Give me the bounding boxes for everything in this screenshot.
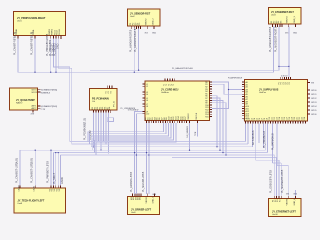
wire U7 drop3: [252, 123, 254, 146]
U7 bottom pin 21: [295, 121, 297, 123]
U7 right pin 7: [308, 113, 311, 115]
junction: [146, 152, 147, 153]
U2 pin 5: [140, 26, 142, 29]
svg-text:GYB_BKB.W: GYB_BKB.W: [128, 109, 139, 111]
wire U2 pin4 drop: [138, 29, 140, 71]
U6 bottom pin 12: [171, 121, 173, 123]
wire U8 pin3 drop: [50, 150, 52, 185]
wire U8 pin5 drop: [55, 153, 57, 186]
svg-text:GND: GND: [293, 33, 298, 35]
U6 bottom pin 10: [167, 121, 169, 123]
U5 bottom pin 2: [95, 110, 97, 113]
U4 pin 1: [38, 89, 41, 91]
svg-text:AC 3.3V-BUS: AC 3.3V-BUS: [252, 130, 255, 145]
hier sheet U7 supply-bus: [245, 80, 308, 122]
U5 top pin 1: [106, 86, 108, 89]
U7 bottom pin 15: [280, 121, 282, 123]
wire U7 drop10: [276, 123, 278, 165]
wire gap bundle 1: [212, 96, 217, 147]
U7 left pin 2: [242, 83, 244, 85]
wire U6R2 to gap: [212, 84, 242, 94]
U3 pin 5: [281, 24, 283, 27]
svg-text:SIG3X: SIG3X: [59, 28, 61, 35]
svg-text:PL_AMKNB-RGBT.B: PL_AMKNB-RGBT.B: [130, 29, 133, 52]
wire U7 drop9: [272, 123, 274, 163]
U6 bottom pin 16: [181, 121, 183, 123]
U5 bottom pin 4: [100, 110, 102, 113]
U3 pin 1: [272, 24, 274, 27]
wire U6 drop4: [93, 123, 171, 150]
svg-text:SWDIO: SWDIO: [188, 113, 190, 120]
U9 pin 2: [134, 193, 136, 196]
wire gap bundle 2: [212, 98, 220, 150]
junction: [93, 146, 94, 147]
U8 pin 4: [52, 185, 54, 188]
junction: [35, 150, 36, 151]
junction: [108, 152, 109, 153]
U6 right pin 12: [210, 106, 212, 108]
svg-text:L2: L2: [146, 86, 148, 88]
hier sheet U9 bottom-middle: [128, 197, 160, 215]
hier sheet U10 bottom-right: [269, 199, 302, 217]
wire net CAN-A trunk: [18, 26, 274, 72]
U7 left pin 10: [242, 103, 244, 105]
U7 left pin 9: [242, 100, 244, 102]
svg-text:GPIO0: GPIO0: [311, 90, 317, 92]
U7 bottom pin 23: [300, 121, 302, 123]
U5 bottom pin 5: [103, 110, 105, 113]
U8 pin 7: [60, 185, 62, 188]
svg-text:GND_A: GND_A: [293, 198, 296, 206]
wire U5 pinB2 drop: [95, 113, 97, 144]
U6 right pin 15: [210, 113, 212, 115]
wire U8 pin7 drop: [60, 155, 62, 185]
wire trunk L7: [172, 157, 277, 159]
U6 right pin 16: [210, 116, 212, 118]
U9 pin 5: [140, 193, 142, 196]
U9 pin 7: [153, 193, 155, 196]
U7 left pin 1: [242, 81, 244, 83]
svg-text:GPIO4: GPIO4: [311, 106, 317, 108]
U6 right pin 11: [210, 104, 212, 106]
wire U5 pinB3 drop: [98, 113, 100, 142]
wire U10 pin4 drop: [280, 163, 282, 196]
U6 right pin 4: [210, 88, 212, 90]
U5 top pin 2: [109, 86, 111, 89]
U8 pin 2: [34, 185, 36, 188]
wire net CAN-B trunk: [90, 26, 279, 70]
U6 left pin 10: [143, 113, 145, 115]
hier sheet U1 top-left: [14, 12, 66, 36]
svg-text:UnitPwr: UnitPwr: [259, 91, 266, 94]
U7 bottom pin 1: [245, 121, 247, 123]
wire link H1 to U3 pin6: [279, 65, 289, 67]
U6 left pin 5: [143, 97, 145, 99]
U6 right pin 7: [210, 95, 212, 97]
U1 pin 5: [55, 36, 57, 39]
U5 bottom pin 7: [108, 110, 110, 113]
U5 bottom pin 6: [105, 110, 107, 113]
U3 pin 4: [279, 24, 281, 27]
svg-text:P6: P6: [289, 82, 291, 84]
U7 bottom pin 4: [252, 121, 254, 123]
wire trunk L3: [91, 146, 252, 148]
U6 left pin 7: [143, 103, 145, 105]
U6 bottom pin 9: [164, 121, 166, 123]
U7 left pin 11: [242, 105, 244, 107]
svg-text:3V3: 3V3: [145, 33, 148, 35]
U7 right pin 5: [308, 105, 311, 107]
wire U1 pin4 route: [53, 38, 69, 141]
U6 bottom pin 6: [157, 121, 159, 123]
svg-text:PL_LAMeKtKTDKYLA-B: PL_LAMeKtKTDKYLA-B: [172, 67, 193, 70]
U7 left pin 5: [242, 91, 244, 93]
U6 right pin 5: [210, 90, 212, 92]
U6 top pin 2: [166, 79, 168, 81]
svg-text:VBUS2: VBUS2: [146, 18, 148, 26]
U7 left pin 16: [242, 117, 244, 119]
svg-text:VBUSA: VBUSA: [286, 198, 289, 206]
junction: [138, 70, 139, 71]
U2 pin 1: [131, 26, 133, 29]
junction: [228, 89, 229, 90]
U6 top pin 5: [174, 79, 176, 81]
junction: [55, 152, 56, 153]
wire U9 pinC drop from U6: [146, 123, 148, 194]
U7 right pin 4: [308, 101, 311, 103]
svg-text:PL_BATMON.B: PL_BATMON.B: [271, 133, 274, 150]
junction: [134, 72, 135, 73]
wire U5 pinB6 drop: [105, 113, 107, 144]
wire gap bundle 4: [212, 103, 226, 155]
svg-text:L6: L6: [146, 100, 148, 102]
U7 bottom pin 25: [305, 121, 307, 123]
svg-text:PS_IO: PS_IO: [114, 100, 116, 107]
U6 bottom pin 17: [183, 121, 185, 123]
junction: [50, 150, 51, 151]
svg-text:T5: T5: [173, 84, 175, 86]
wire U1 pin2 drop: [34, 38, 36, 72]
svg-text:SIG2: SIG2: [57, 29, 59, 35]
wire U6 swclk drop: [197, 123, 199, 137]
svg-text:PL_MGBEGBT-LBT.B: PL_MGBEGBT-LBT.B: [281, 169, 284, 193]
wire gap link U7: [212, 90, 229, 109]
svg-text:GND_3: GND_3: [294, 15, 296, 23]
U7 left pin 15: [242, 115, 244, 117]
wire U7 drop1: [245, 123, 247, 141]
svg-text:4TW: 4TW: [31, 114, 35, 116]
svg-text:C.TW: C.TW: [41, 109, 46, 111]
svg-text:PL_GBEKGBT-RGBT.B: PL_GBEKGBT-RGBT.B: [269, 26, 272, 52]
U6 left pin 6: [143, 99, 145, 101]
U6 right pin 6: [210, 93, 212, 95]
wire U3 pin6 drop to U7: [288, 26, 290, 77]
svg-text:PL_AMKNB-LBT.B: PL_AMKNB-LBT.B: [130, 172, 133, 192]
U2 pin 2: [133, 26, 135, 29]
junction: [98, 141, 99, 142]
U7 bottom pin 20: [292, 121, 294, 123]
wire U6 drop2: [90, 123, 166, 144]
wire U5 pinB7 drop: [108, 113, 110, 153]
svg-text:UnitMain: UnitMain: [161, 91, 169, 94]
svg-text:PL_SIGLT: PL_SIGLT: [53, 172, 56, 184]
U6 bottom pin 13: [174, 121, 176, 123]
U10 pin 3: [278, 195, 280, 198]
U7 bottom pin 24: [302, 121, 304, 123]
svg-text:CANL: CANL: [33, 185, 36, 191]
svg-text:PL_AMKNBPT-BGT.B: PL_AMKNBPT-BGT.B: [134, 28, 137, 52]
wire U8 pin6 drop: [57, 153, 59, 186]
svg-text:L8: L8: [146, 106, 148, 108]
U3 pin 6: [287, 24, 289, 27]
U2 pin 3: [136, 26, 138, 29]
U7 left pin 6: [242, 93, 244, 95]
U2 pin 6: [146, 26, 148, 29]
svg-text:PL_PCMBKNB[7..0]: PL_PCMBKNB[7..0]: [84, 118, 87, 140]
junction: [95, 143, 96, 144]
U7 top pin 1: [279, 77, 281, 79]
junction: [278, 66, 279, 67]
U6 right pin 3: [210, 86, 212, 88]
wire U10 pin6 drop: [295, 190, 297, 196]
U6 left pin 3: [143, 91, 145, 93]
U6 right pin 1: [210, 81, 212, 83]
U7 bottom pin 11: [270, 121, 272, 123]
U7 right pin 3: [308, 97, 311, 99]
svg-text:GPIO6: GPIO6: [311, 114, 317, 116]
junction: [222, 152, 223, 153]
wire U10 pin1 drop: [273, 155, 275, 196]
U2 pin 7: [153, 26, 155, 29]
hier sheet U2 top-middle: [128, 9, 161, 26]
U6 left pin 2: [143, 85, 145, 87]
U7 top pin 4: [286, 77, 288, 79]
junction: [219, 150, 220, 151]
svg-text:TCK: TCK: [195, 131, 197, 136]
U1 pin 2: [34, 36, 36, 39]
junction: [58, 152, 59, 153]
svg-text:«[JUMANDKT[BV.B]: «[JUMANDKT[BV.B]: [41, 105, 58, 108]
U7 bottom pin 22: [297, 121, 299, 123]
U1 pin 4: [52, 36, 54, 39]
U8 pin 6: [57, 185, 59, 188]
U5 bottom pin 3: [98, 110, 100, 113]
wire trunk L1: [70, 141, 246, 143]
U6 top pin 3: [169, 79, 171, 81]
junction: [34, 72, 35, 73]
wire U5 pinB4 drop: [100, 113, 102, 151]
U6 right pin 9: [210, 99, 212, 101]
wire U7 drop5: [258, 123, 260, 143]
wire U6 drop1: [88, 123, 164, 142]
U7 bottom pin 8: [262, 121, 264, 123]
wire U8 pin4 drop: [52, 153, 54, 186]
U7 bottom pin 13: [275, 121, 277, 123]
wire U5 pinB1 drop: [93, 113, 95, 147]
wire trunk L6: [61, 154, 275, 156]
U6 top pin 1: [164, 79, 166, 81]
wire U7 drop4: [255, 123, 257, 160]
svg-text:3V3: 3V3: [285, 33, 288, 35]
svg-text:R15: R15: [205, 116, 208, 118]
U7 bottom pin 6: [257, 121, 259, 123]
junction: [288, 66, 289, 67]
junction: [55, 72, 56, 73]
U6 bottom pin 7: [160, 121, 162, 123]
U4 pin 4: [38, 107, 41, 109]
svg-text:PL_CANBGT-LBT[B.B]: PL_CANBGT-LBT[B.B]: [31, 158, 34, 183]
wire trunk L5: [53, 152, 267, 154]
svg-text:L10: L10: [146, 114, 149, 116]
wire trunk L4: [20, 149, 266, 151]
svg-text:WLRX: WLRX: [32, 92, 38, 94]
U4 pin 3: [38, 105, 41, 107]
wire U6 drop3: [91, 123, 168, 147]
U6 left pin 4: [143, 93, 145, 95]
svg-text:PL_PWRBUS.B: PL_PWRBUS.B: [263, 131, 266, 148]
U1 pin 3: [50, 36, 52, 39]
U4 pin 2: [38, 91, 41, 93]
U7 left pin 13: [242, 110, 244, 112]
U3 pin 3: [277, 24, 279, 27]
U6 right pin 10: [210, 102, 212, 104]
U7 left pin 4: [242, 89, 244, 91]
U7 bottom pin 3: [250, 121, 252, 123]
wire U6 drop6: [96, 123, 176, 155]
U6 bottom pin 3: [150, 121, 152, 123]
U7 left pin 3: [242, 86, 244, 88]
U7 left pin 12: [242, 108, 244, 110]
U6 left pin 9: [143, 111, 145, 113]
U7 top pin 3: [283, 77, 285, 79]
svg-text:K3: K3: [110, 91, 112, 93]
wire U9 pinB route from U6: [136, 114, 142, 194]
svg-text:GPIO5: GPIO5: [311, 110, 317, 112]
U6 bottom pin 19: [189, 121, 191, 123]
U8 pin 5: [55, 185, 57, 188]
hier sheet U8 bottom-left: [14, 188, 66, 213]
svg-text:RADIO: RADIO: [16, 101, 23, 104]
U7 top pin 6: [290, 77, 292, 79]
svg-text:GND_2: GND_2: [152, 18, 154, 26]
wire U6 swdio drop: [189, 123, 191, 150]
hier sheet U3 top-right: [269, 8, 302, 24]
wire U10 pin3 drop: [278, 160, 280, 196]
wire trunk L2: [72, 143, 248, 145]
junction: [136, 154, 137, 155]
U1 pin 7: [60, 36, 62, 39]
U7 right pin 6: [308, 109, 311, 111]
svg-text:ANT2: ANT2: [32, 107, 37, 110]
wire U1 pin6 route: [58, 38, 71, 144]
svg-text:GPIO1: GPIO1: [311, 94, 317, 96]
U7 bottom pin 14: [277, 121, 279, 123]
U6 top pin 4: [171, 79, 173, 81]
wire U5 pinB5 drop: [103, 113, 105, 142]
U9 pin 1: [132, 193, 134, 196]
svg-text:PL_PWRBGT-LBT.B: PL_PWRBGT-LBT.B: [46, 161, 49, 183]
svg-text:VBUS3: VBUS3: [287, 16, 289, 24]
U6 bottom pin 2: [148, 121, 150, 123]
wire U7 drop7: [265, 123, 267, 150]
wire U9 pinA route from U6: [135, 112, 143, 194]
U6 left pin 8: [143, 105, 145, 107]
U7 left pin 14: [242, 112, 244, 114]
U2 pin 4: [138, 26, 140, 29]
U7 right pin 1: [308, 89, 311, 91]
junction: [189, 150, 190, 151]
wire U8 pin1 drop: [19, 150, 21, 185]
wire U10 pin2 drop: [276, 158, 278, 196]
small net-tie loop below U5: [107, 118, 113, 122]
wire U7 drop6: [263, 123, 265, 148]
U9 pin 3: [136, 193, 138, 196]
svg-text:PL_MGBEGBT-RGBT.B: PL_MGBEGBT-RGBT.B: [274, 26, 277, 52]
U7 left pin 8: [242, 98, 244, 100]
svg-text:VBUS9: VBUS9: [146, 196, 148, 204]
wire U6 drop5: [94, 123, 173, 153]
svg-text:GND8: GND8: [61, 177, 64, 184]
svg-text:PWR1: PWR1: [49, 28, 51, 35]
svg-text:C24: C24: [304, 117, 306, 120]
U7 bottom pin 17: [285, 121, 287, 123]
wire U2 pin2 drop: [133, 29, 135, 73]
svg-text:CANH: CANH: [17, 185, 20, 191]
U9 pin 4: [138, 193, 140, 196]
U6 left pin 1: [143, 83, 145, 85]
junction: [105, 143, 106, 144]
U6 right pin 2: [210, 83, 212, 85]
U7 right pin 8: [308, 82, 311, 84]
junction: [100, 150, 101, 151]
U3 pin 2: [274, 24, 276, 27]
svg-text:3V3: 3V3: [286, 194, 289, 196]
svg-text:«[JUMANDKT[BV.A]: «[JUMANDKT[BV.A]: [41, 89, 58, 92]
U7 left pin 7: [242, 96, 244, 98]
svg-text:U6_SWDIO: U6_SWDIO: [187, 126, 189, 138]
U6 bottom pin 4: [153, 121, 155, 123]
U10 pin 5: [287, 195, 289, 198]
U7 bottom pin 12: [272, 121, 274, 123]
U7 bottom pin 9: [265, 121, 267, 123]
U5 top pin 3: [111, 86, 113, 89]
U9 pin 6: [147, 193, 149, 196]
U6 bottom pin 1: [146, 121, 148, 123]
wire U1 pin3 drop: [50, 38, 52, 72]
svg-text:GND: GND: [152, 33, 157, 35]
U7 top pin 2: [281, 77, 283, 79]
U6 right pin 14: [210, 111, 212, 113]
wire trunk L10: [277, 165, 288, 167]
svg-text:Unit10: Unit10: [272, 213, 279, 216]
svg-text:L4: L4: [146, 94, 148, 96]
U6 bottom pin 20: [197, 121, 199, 123]
svg-text:GND_9: GND_9: [153, 196, 155, 204]
svg-text:NUMBER.A: NUMBER.A: [41, 92, 51, 95]
U7 top pin 5: [288, 77, 290, 79]
U8 pin 1: [19, 185, 21, 188]
U7 bottom pin 18: [287, 121, 289, 123]
wire U6R1 to gap: [212, 82, 242, 90]
U7 bottom pin 10: [267, 121, 269, 123]
U7 bottom pin 19: [290, 121, 292, 123]
wire U7 drop2: [247, 123, 249, 144]
svg-text:GND: GND: [57, 43, 60, 49]
hier sheet U6 core-mcu: [145, 81, 210, 121]
hier sheet U4 left-radio: [10, 88, 38, 110]
wire trunk L8: [256, 159, 279, 161]
U1 pin 6: [57, 36, 59, 39]
